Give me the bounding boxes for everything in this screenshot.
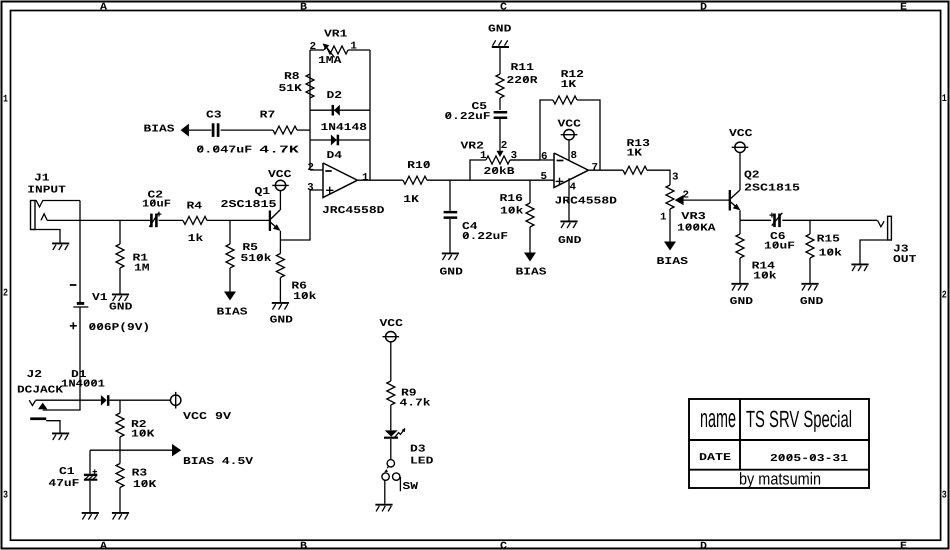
capacitor C2 [149, 212, 161, 228]
wire R12 left vertical [540, 100, 553, 160]
svg-text:GND: GND [558, 235, 581, 247]
svg-text:2: 2 [308, 162, 315, 174]
svg-text:1K: 1K [561, 79, 578, 91]
label VCC Q2 [729, 128, 752, 140]
wire left vertical x310 [309, 50, 311, 170]
svg-text:51K: 51K [279, 83, 303, 95]
label VCC D3 [380, 318, 403, 330]
svg-text:2SC1815: 2SC1815 [221, 199, 277, 211]
svg-text:3: 3 [3, 491, 8, 502]
pin 2 VR2 [501, 140, 508, 152]
label Q2 [744, 170, 760, 182]
wire J1 ring to C2 [47, 219, 150, 221]
svg-text:GND: GND [488, 24, 511, 36]
title block box [689, 399, 869, 488]
label R14 [752, 261, 775, 273]
svg-text:47uF: 47uF [48, 478, 79, 490]
wire R13 to VR3 [647, 170, 670, 185]
op-amp U1B [554, 153, 588, 188]
wire Q2 collector [739, 153, 741, 190]
pin 1 U1A [362, 172, 369, 184]
wire R2 leads [119, 400, 121, 450]
connector J1 phone jack body [31, 201, 81, 230]
pin 1 VR2 [480, 150, 487, 162]
svg-text:name: name [700, 403, 736, 433]
power VCC U1B [561, 130, 578, 140]
bias arrow R16 [524, 253, 536, 262]
svg-text:7: 7 [592, 162, 599, 174]
label R3 [132, 468, 148, 480]
svg-text:BIAS: BIAS [516, 267, 547, 279]
ground C1 [82, 513, 99, 520]
label 4.7K R7 [259, 144, 300, 156]
wire switch to ground [384, 480, 386, 504]
svg-text:510k: 510k [241, 253, 272, 265]
label BIAS VR3 [657, 256, 689, 268]
svg-text:R16: R16 [500, 193, 523, 205]
svg-text:Q2: Q2 [744, 170, 760, 182]
potentiometer VR3 [666, 185, 684, 209]
label J1 [34, 172, 50, 184]
wire R15 top [809, 220, 811, 234]
wire R15 bottom [809, 258, 811, 283]
ground U1B pin4 [560, 221, 577, 228]
svg-text:6: 6 [541, 151, 548, 163]
label BIAS R16 [516, 267, 547, 279]
label GND R1 [109, 302, 132, 314]
svg-text:SW: SW [403, 481, 419, 493]
svg-text:0.22uF: 0.22uF [445, 111, 491, 123]
svg-text:10K: 10K [131, 429, 155, 441]
svg-text:R10: R10 [407, 160, 430, 172]
potentiometer VR2 [486, 119, 540, 164]
wire D3 to switch [390, 439, 392, 460]
pin 4 U1B [570, 182, 577, 194]
label 1K R13 [627, 147, 644, 159]
svg-text:J1: J1 [34, 172, 50, 184]
wire C1 bottom [89, 481, 91, 512]
resistor R3 [116, 464, 124, 488]
ground R14 [731, 284, 748, 291]
wire VR3 bottom [669, 209, 671, 242]
label GND C4 [440, 267, 463, 279]
label D2 [327, 90, 343, 102]
label R10 [407, 160, 430, 172]
pin 1 VR3 [660, 212, 667, 224]
svg-text:10k: 10k [819, 248, 842, 260]
wire node to R16 node [470, 179, 554, 181]
svg-text:JRC4558D: JRC4558D [322, 205, 385, 217]
label 10K R2 [131, 429, 155, 441]
frame row labels left [3, 94, 8, 501]
resistor R2 [116, 413, 124, 437]
label 10k R16 [500, 206, 523, 218]
label R16 [500, 193, 523, 205]
label OUT [893, 254, 916, 266]
label LED [410, 456, 433, 468]
ground R3 [112, 513, 129, 520]
svg-text:3: 3 [942, 491, 947, 502]
label 1k R4 [188, 233, 204, 245]
wire VCC pin8 stub [568, 140, 570, 161]
svg-text:E: E [900, 541, 907, 550]
label 10uF C6 [764, 240, 795, 252]
label 2SC1815 Q1 [221, 199, 277, 211]
wire R7 to node [297, 129, 310, 131]
svg-text:1k: 1k [188, 233, 204, 245]
svg-text:3: 3 [307, 182, 314, 194]
label R2 [131, 419, 147, 431]
svg-text:R7: R7 [260, 110, 276, 122]
svg-text:10K: 10K [133, 479, 157, 491]
label C3 [206, 109, 222, 121]
svg-text:8: 8 [571, 150, 578, 162]
label 1N4148 [321, 122, 368, 134]
resistor R4 [183, 216, 207, 224]
wire D4 row [310, 139, 370, 141]
pin 2 VR1 [310, 41, 317, 53]
wire R5 top [229, 220, 231, 244]
label 100KA [677, 223, 716, 235]
ground J2 [52, 433, 69, 440]
label BIAS R5 [217, 306, 248, 318]
wire R16 top [529, 180, 531, 203]
wire D2 row [310, 109, 370, 111]
svg-text:2: 2 [501, 140, 508, 152]
wire C4 top [449, 180, 451, 211]
label 220R [507, 75, 539, 87]
capacitor C4 [444, 212, 458, 218]
svg-text:GND: GND [440, 267, 463, 279]
label 1K R10 [403, 194, 420, 206]
resistor R14 [736, 234, 744, 258]
pin 8 U1B [571, 150, 578, 162]
bias arrow VR3 [664, 242, 676, 251]
wire VCC to R9 [390, 342, 392, 381]
wire R6 leads [279, 240, 281, 302]
wire emitter row to pin3 [280, 190, 323, 240]
svg-text:A: A [100, 541, 108, 550]
label V1 plus [70, 322, 77, 329]
svg-text:by matsumin: by matsumin [739, 470, 821, 489]
svg-text:D: D [700, 2, 707, 13]
label J2 [27, 369, 43, 381]
op-amp U1A [323, 163, 357, 198]
wire J1 tip to battery [79, 201, 81, 303]
svg-text:1: 1 [362, 172, 369, 184]
resistor R6 [276, 254, 284, 278]
label C2 [148, 190, 164, 202]
wire R4 to Q1 base [207, 219, 269, 221]
potentiometer VR1 [310, 43, 370, 57]
wire battery minus to DC jack row [43, 307, 80, 410]
svg-text:R15: R15 [817, 234, 840, 246]
svg-text:10k: 10k [500, 206, 523, 218]
label 10k R15 [819, 248, 842, 260]
svg-text:BIAS 4.5V: BIAS 4.5V [183, 456, 254, 468]
svg-text:3: 3 [672, 172, 679, 184]
svg-text:Q1: Q1 [255, 186, 271, 198]
svg-text:VCC: VCC [729, 128, 752, 140]
svg-text:006P(9V): 006P(9V) [89, 322, 151, 334]
svg-text:10uF: 10uF [142, 198, 171, 210]
wire VR3 wiper to Q2 base [684, 199, 729, 201]
wire R3 leads [119, 450, 121, 512]
label R11 [511, 62, 534, 74]
label R4 [187, 201, 203, 213]
frame column labels top [100, 2, 907, 13]
svg-text:D4: D4 [327, 150, 343, 162]
ground R6 [272, 303, 289, 310]
label R9 [401, 388, 417, 400]
ground SW [375, 505, 392, 512]
wire GND pin4 stub [568, 178, 570, 220]
bias arrow 4.5V [172, 444, 181, 457]
resistor R13 [623, 166, 647, 174]
label R8 [284, 71, 300, 83]
label 1MA [318, 55, 342, 67]
svg-text:0.047uF: 0.047uF [196, 144, 252, 156]
label R6 [291, 281, 307, 293]
svg-text:R11: R11 [511, 62, 534, 74]
svg-text:VCC: VCC [558, 118, 581, 130]
pin 6 U1B [541, 151, 548, 163]
svg-text:10k: 10k [293, 291, 316, 303]
svg-text:1MA: 1MA [318, 55, 342, 67]
resistor R7 [273, 126, 297, 134]
label 510k [241, 253, 272, 265]
label GND R14 [730, 296, 753, 308]
label GND U1B [558, 235, 581, 247]
label C1 [59, 466, 75, 478]
label 51K [279, 83, 303, 95]
svg-text:DCJACK: DCJACK [17, 385, 64, 397]
svg-text:2005-03-31: 2005-03-31 [770, 453, 848, 465]
pin 2 U1A [308, 162, 315, 174]
label GND R15 [800, 296, 823, 308]
svg-text:1: 1 [3, 94, 8, 105]
svg-text:R8: R8 [284, 71, 300, 83]
capacitor C1 [84, 469, 97, 479]
svg-text:R4: R4 [187, 201, 203, 213]
svg-text:GND: GND [270, 314, 293, 326]
wire R9 to D3 [390, 405, 392, 430]
svg-text:VCC: VCC [380, 318, 403, 330]
svg-text:C: C [500, 541, 507, 550]
svg-text:1: 1 [660, 212, 667, 224]
wire R11 to C5 [499, 98, 501, 110]
label name [700, 403, 736, 433]
label VR1 [324, 29, 347, 41]
wire C5 bottom [499, 118, 501, 120]
wire R14 bottom [739, 258, 741, 283]
battery V1 plates [73, 303, 88, 307]
svg-text:2: 2 [310, 41, 317, 53]
title block dividers [689, 399, 869, 470]
capacitor C5 [494, 112, 508, 118]
svg-text:B: B [300, 541, 307, 550]
ground J3 [851, 264, 868, 271]
label V1 minus [70, 284, 77, 286]
resistor R16 [526, 203, 534, 227]
resistor R10 [403, 176, 427, 184]
label Q1 [255, 186, 271, 198]
label R1 [133, 253, 149, 265]
svg-text:VR1: VR1 [324, 29, 347, 41]
transistor Q1 [270, 210, 281, 231]
label INPUT [27, 185, 66, 197]
diode D2 [333, 105, 340, 116]
wire R10 to VR2 corner [427, 179, 470, 181]
label 10uF C2 [142, 198, 171, 210]
wire R1 top [119, 220, 121, 244]
svg-text:C: C [500, 2, 507, 13]
ground C4 [442, 253, 459, 260]
label J3 [893, 244, 909, 256]
label VCC U1B [558, 118, 581, 130]
svg-text:4.7k: 4.7k [400, 398, 431, 410]
wire arrow to C3 [189, 129, 212, 131]
LED D3 [384, 428, 405, 438]
svg-text:GND: GND [109, 302, 132, 314]
svg-text:100KA: 100KA [677, 223, 716, 235]
wire C1 top [89, 450, 91, 474]
label JRC4558D U1A [322, 205, 385, 217]
label BIAS C3 [144, 123, 175, 135]
svg-text:2: 2 [942, 291, 947, 302]
label D3 [410, 444, 426, 456]
label SW [403, 481, 419, 493]
wire D1 to VCC node [109, 399, 170, 401]
wire C3 to R7 [221, 129, 273, 131]
wire right vertical x370 [369, 50, 371, 180]
label 47uF [48, 478, 79, 490]
label 1K R12 [561, 79, 578, 91]
svg-text:V1: V1 [92, 292, 108, 304]
label TS SRV Special [746, 406, 852, 432]
svg-text:1M: 1M [134, 263, 150, 275]
svg-text:C3: C3 [206, 109, 222, 121]
diode D1 [101, 395, 108, 406]
pin 7 U1B [592, 162, 599, 174]
label 2SC1815 Q2 [744, 182, 800, 194]
resistor R11 [496, 74, 504, 98]
ground R1 [112, 294, 129, 301]
resistor R15 [806, 234, 814, 258]
svg-text:D2: D2 [327, 90, 343, 102]
svg-text:E: E [900, 2, 907, 13]
wire pin6 row [510, 159, 554, 161]
wire VR2 left lead [470, 160, 486, 180]
bias arrow C3 [181, 124, 189, 137]
svg-text:20kB: 20kB [484, 166, 516, 178]
svg-text:GND: GND [800, 296, 823, 308]
connector J2 DC jack [29, 400, 60, 432]
wire bias row [90, 449, 172, 451]
svg-text:1N4148: 1N4148 [321, 122, 368, 134]
label D4 [327, 150, 343, 162]
pin 5 U1B [541, 171, 548, 183]
pin 1 VR1 [350, 41, 357, 53]
svg-text:B: B [300, 2, 307, 13]
svg-text:INPUT: INPUT [27, 185, 66, 197]
label 0.22uF C4 [462, 231, 508, 243]
wire pin2 stub [310, 169, 323, 171]
label DCJACK [17, 385, 64, 397]
svg-text:J2: J2 [27, 369, 43, 381]
power VCC Q1 [272, 180, 289, 190]
svg-text:10k: 10k [753, 271, 776, 283]
svg-text:4: 4 [570, 182, 577, 194]
wire C2 to R4 [159, 219, 183, 221]
label 10k R14 [753, 271, 776, 283]
label 1M [134, 263, 150, 275]
capacitor C6 [770, 213, 783, 227]
wire R11 top [499, 48, 501, 74]
svg-text:2: 2 [3, 289, 8, 300]
wire J3 sleeve [860, 240, 888, 264]
label by matsumin [739, 470, 821, 489]
wire D1 row [36, 399, 101, 401]
svg-text:BIAS: BIAS [144, 123, 175, 135]
label 2005-03-31 [770, 453, 848, 465]
power VCC Q2 [732, 142, 749, 152]
wire U1A output [357, 179, 403, 181]
resistor R8 [306, 74, 314, 98]
svg-text:BIAS: BIAS [217, 306, 248, 318]
wire R14 top [739, 220, 741, 234]
svg-text:A: A [100, 2, 108, 13]
label 0.047uF [196, 144, 252, 156]
svg-text:1K: 1K [627, 147, 644, 159]
svg-text:TS SRV Special: TS SRV Special [746, 406, 852, 432]
svg-text:OUT: OUT [893, 254, 916, 266]
svg-text:D: D [700, 541, 707, 550]
label C6 [770, 231, 786, 243]
pin 2 VR3 [683, 189, 690, 201]
wire J1 sleeve [31, 230, 61, 243]
svg-text:1: 1 [942, 94, 947, 105]
wire Q1 collector [279, 191, 281, 210]
label R12 [561, 69, 584, 81]
label C4 [462, 221, 478, 233]
label R7 [260, 110, 276, 122]
label 10k R6 [293, 291, 316, 303]
resistor R1 [116, 244, 124, 268]
label BIAS 4.5V [183, 456, 254, 468]
svg-text:GND: GND [730, 296, 753, 308]
svg-text:1K: 1K [403, 194, 420, 206]
label V1 [92, 292, 108, 304]
label 4.7k R9 [400, 398, 431, 410]
label GND R6 [270, 314, 293, 326]
resistor R9 [387, 381, 395, 405]
power VCC D3 [383, 332, 400, 342]
svg-text:VCC: VCC [268, 169, 291, 181]
svg-text:VR3: VR3 [681, 211, 706, 223]
svg-text:JRC4558D: JRC4558D [555, 195, 618, 207]
ground J1 [52, 243, 69, 250]
label VCC 9V [183, 411, 232, 423]
svg-text:LED: LED [410, 456, 433, 468]
label 0.22uF C5 [445, 111, 491, 123]
wire R5 bottom [229, 268, 231, 292]
svg-text:5: 5 [541, 171, 548, 183]
svg-text:2SC1815: 2SC1815 [744, 182, 800, 194]
label R15 [817, 234, 840, 246]
svg-text:R3: R3 [132, 468, 148, 480]
svg-text:1N4001: 1N4001 [61, 379, 105, 391]
